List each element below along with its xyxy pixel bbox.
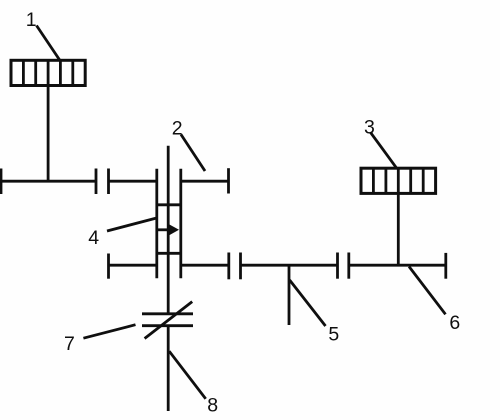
- svg-text:5: 5: [328, 324, 339, 346]
- output shaft left end bar: [107, 254, 110, 279]
- leader line from 5: [290, 280, 326, 326]
- planet carrier right bar: [179, 169, 182, 278]
- input shaft middle segment: [109, 180, 158, 183]
- leader line from 4: [107, 218, 157, 231]
- brake 7 slash: [145, 302, 193, 339]
- coupling bar A2: [107, 169, 110, 195]
- coupling bar A1: [95, 169, 98, 195]
- fork 5 vertical: [288, 265, 291, 325]
- leader line from 6: [409, 267, 446, 315]
- coupling bar B1: [227, 253, 230, 280]
- leader line from 8: [169, 351, 206, 399]
- leader line to gear 1: [37, 26, 61, 61]
- wire from gear 1 down to input shaft: [47, 86, 50, 182]
- coupling bar B2: [239, 253, 242, 280]
- output shaft segment d: [349, 264, 446, 267]
- arrow 4 shaft: [157, 228, 169, 231]
- output shaft segment c: [241, 264, 338, 267]
- output shaft segment a: [109, 264, 158, 267]
- svg-text:1: 1: [26, 9, 37, 31]
- leader line from 3: [370, 132, 397, 168]
- leader line from 7: [83, 325, 135, 339]
- input shaft left end bar: [0, 169, 2, 195]
- coupling bar C2: [347, 253, 350, 279]
- coupling bar C1: [336, 253, 339, 279]
- center shaft lower section: [167, 326, 170, 411]
- svg-text:8: 8: [207, 395, 218, 417]
- output shaft right end bar: [444, 253, 447, 279]
- wire from gear 3 down to output shaft: [397, 193, 400, 265]
- input shaft right segment: [181, 180, 229, 183]
- center shaft upper section: [167, 146, 170, 314]
- arrow 4 head: [168, 224, 179, 236]
- svg-text:6: 6: [449, 312, 460, 334]
- leader line from 2: [181, 135, 205, 172]
- brake 7 upper plate: [142, 312, 193, 315]
- carrier rung upper: [157, 203, 181, 206]
- output shaft segment b: [181, 264, 229, 267]
- planet carrier left bar: [155, 169, 158, 278]
- brake 7 lower plate: [142, 324, 193, 327]
- input shaft right end bar: [227, 168, 230, 193]
- input shaft left segment: [0, 180, 96, 183]
- gear block 1 (hatched box): [11, 60, 85, 85]
- svg-text:4: 4: [88, 227, 99, 249]
- svg-text:7: 7: [64, 333, 75, 355]
- carrier rung lower: [157, 252, 181, 255]
- gear block 3 (hatched box): [361, 168, 436, 193]
